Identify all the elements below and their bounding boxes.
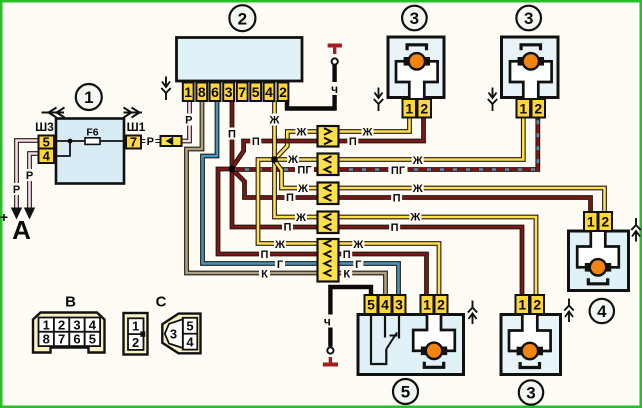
svg-text:7: 7 (130, 135, 137, 150)
svg-text:2: 2 (437, 297, 445, 313)
wire П row 1 branch to left front lamp pin 2 (232, 117, 424, 168)
label П row 4 right (389, 221, 400, 234)
pin 2 of unit 5 (435, 295, 448, 314)
bullet connector pair row 3 (318, 183, 339, 205)
svg-text:ч: ч (331, 82, 338, 96)
svg-text:1: 1 (132, 319, 139, 334)
wire Ж row 3 branch to side repeater pin 2 (275, 161, 605, 214)
designator circle 5 (393, 379, 418, 404)
label Г row 5 left (275, 258, 285, 271)
svg-text:А: А (12, 215, 31, 245)
bullet connector pair row 1 (318, 126, 339, 147)
pin 5 of unit 2 (250, 83, 261, 102)
switch contact from pin 5 (371, 315, 386, 365)
connector B cell 7 (54, 332, 69, 347)
svg-text:1: 1 (184, 84, 192, 100)
label Р at fuse pin 7 (145, 135, 155, 148)
label Р below switch pin 1 (184, 114, 194, 127)
svg-text:К: К (261, 268, 268, 280)
svg-text:2: 2 (533, 297, 541, 313)
svg-text:Ж: Ж (352, 239, 363, 251)
lamp symbol in unit 4 (577, 231, 619, 284)
pin 4 of fuse box (39, 148, 55, 163)
hazard switch unit 2 body (177, 38, 303, 82)
wire ПГ junction to right front lamp pin 2 (red/blue striped) (232, 117, 538, 170)
svg-text:F6: F6 (86, 127, 98, 139)
ground symbol at unit 2 (161, 77, 170, 101)
svg-text:4: 4 (89, 317, 97, 332)
ground symbol at left unit 3 (374, 88, 383, 112)
pin 7 of unit 2 (237, 83, 248, 102)
connector B outline (33, 313, 105, 353)
connector B cell 3 (69, 317, 84, 332)
svg-text:5: 5 (401, 383, 410, 402)
label Р on wire to A 2 (25, 169, 35, 182)
wire П branch junction to row 5 and rear lamp unit 5 pin 1 (218, 169, 427, 296)
wire П branch junction to row 3 and side repeater pin 1 (232, 169, 591, 213)
connector symbol on lower ч wire (323, 347, 338, 364)
svg-text:1: 1 (587, 214, 595, 230)
svg-text:8: 8 (198, 84, 206, 100)
svg-text:2: 2 (420, 100, 428, 116)
pin 1 of bottom unit 3 (516, 295, 530, 314)
svg-text:Р: Р (13, 184, 20, 196)
svg-text:4: 4 (381, 297, 389, 313)
internal junction dot (68, 139, 73, 144)
svg-text:Р: Р (147, 136, 154, 148)
svg-text:П: П (286, 192, 294, 204)
pin 1 of unit 4 (584, 212, 598, 231)
pin 2 of unit 2 (278, 83, 289, 102)
svg-text:П: П (261, 249, 269, 261)
svg-text:3: 3 (73, 317, 80, 332)
svg-text:Ж: Ж (412, 183, 423, 195)
designator circle 1 (76, 84, 102, 110)
svg-text:3: 3 (526, 384, 535, 403)
lamp symbol in left unit 3 (396, 45, 438, 99)
svg-text:П: П (349, 136, 357, 148)
connector C part 2 outline (162, 314, 200, 354)
svg-text:Г: Г (277, 259, 284, 271)
pin 8 of unit 2 (196, 83, 207, 102)
label ч lower (322, 314, 333, 328)
designator circle 4 (590, 299, 614, 323)
side repeater unit 4 body (569, 231, 629, 291)
designator circle 3 right (516, 6, 541, 31)
svg-text:К: К (343, 268, 350, 280)
svg-text:5: 5 (252, 84, 260, 100)
label П row 1 right (347, 135, 358, 148)
svg-text:2: 2 (238, 9, 247, 28)
label Ж row 4 right (409, 210, 421, 223)
wire Р fuse pin 7 to bullet connector (140, 139, 161, 143)
label Ж row 5 left (274, 238, 286, 251)
svg-text:П: П (343, 249, 351, 261)
front lamp unit 3 left body (388, 37, 444, 98)
label Ж below switch pin 4 (269, 114, 281, 127)
lamp symbol in bottom unit 3 (509, 314, 551, 368)
wire Р battery feed from fuse pin 4 to point A (30, 154, 40, 208)
svg-text:3: 3 (410, 9, 419, 28)
switch blade (386, 333, 397, 350)
rear lamp unit 5 body (358, 315, 464, 375)
lamp symbol in unit 5 (413, 314, 455, 367)
svg-text:8: 8 (43, 332, 50, 347)
svg-text:Ж: Ж (295, 212, 306, 224)
label П row 1 left (250, 135, 261, 148)
label ПГ row 2 left (295, 163, 314, 176)
svg-text:Ш3: Ш3 (35, 120, 54, 134)
svg-text:+: + (0, 209, 8, 225)
label П row 5 left (259, 248, 270, 261)
pin 1 of left unit 3 (403, 99, 417, 118)
svg-text:5: 5 (367, 297, 375, 313)
svg-text:П: П (284, 221, 292, 233)
svg-text:4: 4 (265, 84, 273, 100)
svg-text:Ж: Ж (296, 126, 307, 138)
wire Р battery feed from fuse pin 5 to point A (17, 141, 40, 208)
svg-text:7: 7 (58, 332, 65, 347)
internal wire pin 5 to fuse to pin 7 (54, 140, 126, 142)
svg-text:3: 3 (225, 84, 233, 100)
label Ж row 2 right (412, 154, 424, 167)
connector C part 1 outline (124, 313, 148, 355)
lamp symbol in right unit 3 (510, 45, 552, 99)
svg-text:Ж: Ж (362, 126, 373, 138)
svg-text:ПГ: ПГ (391, 165, 406, 177)
svg-text:1: 1 (405, 100, 413, 116)
pin 1 of unit 2 (183, 83, 194, 102)
wire К switch pin 8 to rear lamp pin 4 (187, 101, 386, 297)
designator circle 2 (229, 5, 255, 31)
label Ж row 3 left (297, 182, 309, 195)
ground symbol at bottom unit 3 (564, 299, 573, 323)
pin 2 of left unit 3 (418, 99, 432, 118)
pin 7 of fuse box (126, 135, 141, 150)
wire Ж switch pin 4 down to row 4 and right rear lamp pin 2 (275, 101, 537, 297)
svg-text:1: 1 (518, 297, 526, 313)
connector C part 1 cells 1 2 (128, 318, 145, 350)
wire П switch pin 3 down through junction to row 4 and right rear lamp pin 1 (232, 101, 522, 297)
pin 1 of unit 5 (421, 295, 434, 314)
svg-text:С: С (156, 294, 167, 311)
bullet connector pair row 2 (318, 154, 339, 176)
connector C part 2 cell 3 (165, 319, 183, 348)
junction node on Ж wires (271, 156, 277, 162)
svg-text:Ж: Ж (409, 211, 420, 223)
svg-text:1: 1 (84, 88, 93, 107)
label П row 3 right (391, 192, 402, 205)
left connector arrow (42, 108, 65, 118)
fuse box unit 1 body (56, 119, 124, 184)
svg-text:4: 4 (597, 302, 607, 321)
label П row 4 left (282, 220, 293, 233)
pin 4 of unit 2 (264, 83, 275, 102)
connector symbol on upper ч wire (328, 46, 342, 65)
pin 2 of right unit 3 (532, 99, 546, 118)
switch contact from pin 3 (398, 315, 400, 339)
svg-text:Ж: Ж (274, 239, 285, 251)
svg-text:ПГ: ПГ (297, 164, 312, 176)
pin 5 of unit 5 (365, 295, 378, 314)
label Ж row 4 left (295, 211, 307, 224)
svg-text:1: 1 (43, 317, 50, 332)
svg-text:П: П (393, 193, 401, 205)
svg-text:ч: ч (324, 314, 331, 328)
svg-text:Р: Р (26, 170, 33, 182)
svg-text:3: 3 (524, 9, 533, 28)
svg-text:Р: Р (185, 114, 192, 126)
rear lamp unit 3 bottom body (501, 315, 561, 375)
bullet connector quad row 5 (318, 239, 339, 282)
connector C part 2 cells 5 4 (183, 318, 198, 350)
label ч upper (329, 82, 340, 96)
pin 4 of unit 5 (379, 295, 392, 314)
label П below switch pin 3 (227, 128, 238, 141)
right connector arrow (124, 108, 143, 118)
label К row 5 left (259, 267, 270, 280)
bullet connector pair row 4 (318, 212, 339, 234)
designator circle 3 bottom (519, 380, 543, 404)
svg-text:5: 5 (89, 332, 96, 347)
wire Ж row 2 branch to right front lamp pin 1 (275, 117, 524, 160)
label Г row 5 right (353, 258, 363, 271)
svg-text:Ж: Ж (412, 155, 423, 167)
svg-text:7: 7 (238, 84, 246, 100)
label Р on wire to A 1 (12, 183, 22, 196)
wire Г switch pin 6 to rear lamp pin 3 (203, 101, 399, 297)
label Ж row 1 left (296, 125, 308, 138)
internal branch to pin 4 (54, 141, 70, 156)
connector B cell 6 (69, 332, 84, 347)
svg-text:Ж: Ж (269, 114, 280, 126)
wire Р bullet connector to switch pin 1 (180, 101, 190, 142)
label Ж row 1 right (362, 125, 374, 138)
designator circle 3 left (402, 6, 427, 31)
svg-text:2: 2 (279, 84, 287, 100)
pin 1 of right unit 3 (517, 99, 531, 118)
label К row 5 right (341, 267, 352, 280)
ground symbol at unit 5 (468, 301, 477, 325)
svg-text:6: 6 (211, 84, 219, 100)
svg-text:2: 2 (132, 335, 139, 350)
wire ч switch pin 2 to instrument connector (287, 65, 335, 109)
svg-text:4: 4 (186, 334, 194, 349)
connector B cell 1 (39, 317, 54, 332)
label ПГ row 2 right (389, 164, 408, 177)
pin 2 of unit 4 (599, 212, 613, 231)
svg-text:Ж: Ж (297, 183, 308, 195)
fuse F6 element (85, 138, 100, 145)
svg-text:П: П (391, 222, 399, 234)
connector B cell 4 (85, 317, 100, 332)
junction node on П wires (229, 166, 236, 173)
label Ж row 2 left (287, 153, 299, 166)
svg-text:Г: Г (355, 259, 362, 271)
svg-text:Ш1: Ш1 (127, 120, 146, 134)
svg-text:П: П (252, 136, 260, 148)
pin 2 of bottom unit 3 (531, 295, 545, 314)
svg-text:В: В (65, 294, 76, 311)
svg-text:5: 5 (43, 135, 50, 150)
svg-text:1: 1 (519, 100, 527, 116)
wire Ж row 1 branch to left front lamp pin 1 (275, 117, 410, 160)
label П row 3 left (285, 191, 296, 204)
connector B cell 8 (39, 332, 54, 347)
label Ж row 5 right (352, 238, 364, 251)
svg-text:3: 3 (170, 326, 177, 341)
svg-text:П: П (228, 128, 236, 140)
connector B cell 5 (85, 332, 100, 347)
svg-text:2: 2 (58, 317, 65, 332)
pin 5 of fuse box (39, 135, 55, 150)
wire Ж row 5 branch to rear lamp unit 5 pin 2 (258, 160, 439, 297)
wire ч rear lamp pin 5 to connector (330, 287, 371, 347)
svg-text:1: 1 (423, 297, 431, 313)
svg-text:3: 3 (395, 297, 403, 313)
pin 6 of unit 2 (210, 83, 221, 102)
switch contact from pin 4 (384, 315, 386, 338)
arrow to node A wire 2 (24, 208, 35, 220)
svg-text:5: 5 (186, 318, 193, 333)
connector B cell 2 (54, 317, 69, 332)
ground symbol at unit 4 (631, 218, 640, 242)
ground symbol at right unit 3 (488, 88, 497, 112)
label Ж row 3 right (412, 182, 424, 195)
bullet connector on Р wire near fuse box (161, 136, 182, 146)
arrow to node A wire 1 (11, 208, 22, 220)
label П row 5 right (341, 248, 352, 261)
svg-text:6: 6 (73, 332, 80, 347)
front lamp unit 3 right body (502, 37, 559, 98)
pin 3 of unit 5 (393, 295, 406, 314)
pin 3 of unit 2 (223, 83, 234, 102)
svg-text:2: 2 (534, 100, 542, 116)
svg-text:2: 2 (601, 214, 609, 230)
svg-text:4: 4 (43, 148, 51, 163)
